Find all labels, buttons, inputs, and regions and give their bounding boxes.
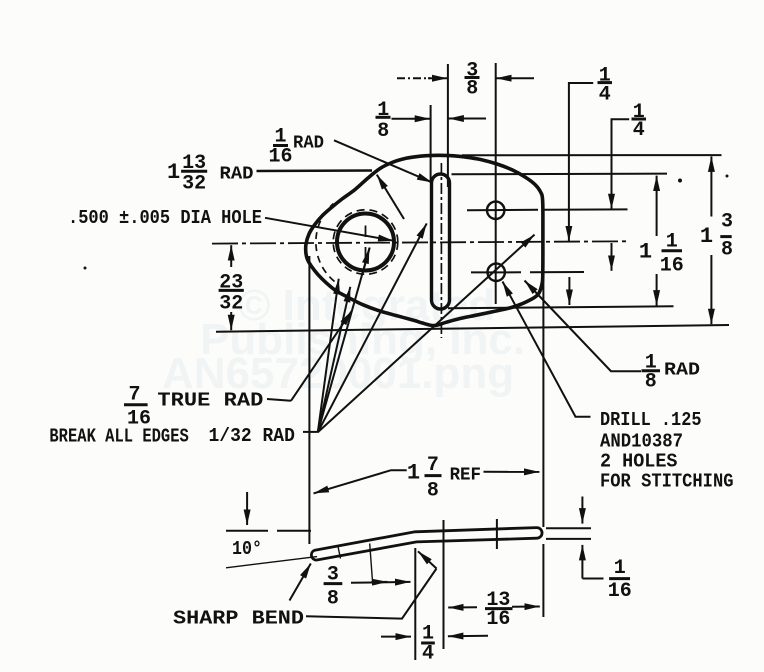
svg-text:3: 3 [721,211,733,234]
svg-text:REF: REF [450,466,481,486]
svg-text:7: 7 [427,454,439,477]
svg-text:16: 16 [486,608,510,631]
svg-text:8: 8 [327,588,339,611]
svg-text:8: 8 [466,78,478,101]
svg-text:16: 16 [660,255,684,278]
svg-text:16: 16 [608,580,632,603]
svg-text:TRUE RAD: TRUE RAD [157,390,263,412]
svg-text:8: 8 [427,480,439,503]
svg-text:DRILL .125: DRILL .125 [600,409,702,431]
svg-text:16: 16 [127,408,151,431]
svg-text:.500 ±.005 DIA HOLE: .500 ±.005 DIA HOLE [68,207,262,229]
svg-text:16: 16 [268,145,292,168]
svg-text:4: 4 [599,84,611,107]
svg-text:1/32 RAD: 1/32 RAD [209,425,295,447]
svg-text:1: 1 [639,240,652,265]
svg-text:1: 1 [614,557,626,580]
svg-text:BREAK ALL EDGES: BREAK ALL EDGES [49,426,188,448]
svg-text:1: 1 [167,160,180,185]
svg-text:8: 8 [377,120,389,143]
svg-text:10°: 10° [232,538,262,560]
svg-text:4: 4 [422,642,434,665]
svg-text:32: 32 [182,173,206,196]
svg-text:4: 4 [633,119,645,142]
svg-text:1: 1 [407,461,420,486]
svg-text:RAD: RAD [293,134,324,154]
svg-text:1: 1 [700,224,713,249]
svg-text:AND10387: AND10387 [600,431,683,453]
svg-text:2 HOLES: 2 HOLES [600,451,678,473]
svg-text:8: 8 [645,371,657,394]
svg-text:7: 7 [128,384,140,407]
svg-text:8: 8 [721,238,733,261]
svg-text:SHARP BEND: SHARP BEND [173,608,304,630]
svg-text:32: 32 [219,293,243,316]
svg-text:RAD: RAD [220,165,254,185]
svg-text:RAD: RAD [664,361,700,381]
svg-text:FOR STITCHING: FOR STITCHING [600,471,734,493]
